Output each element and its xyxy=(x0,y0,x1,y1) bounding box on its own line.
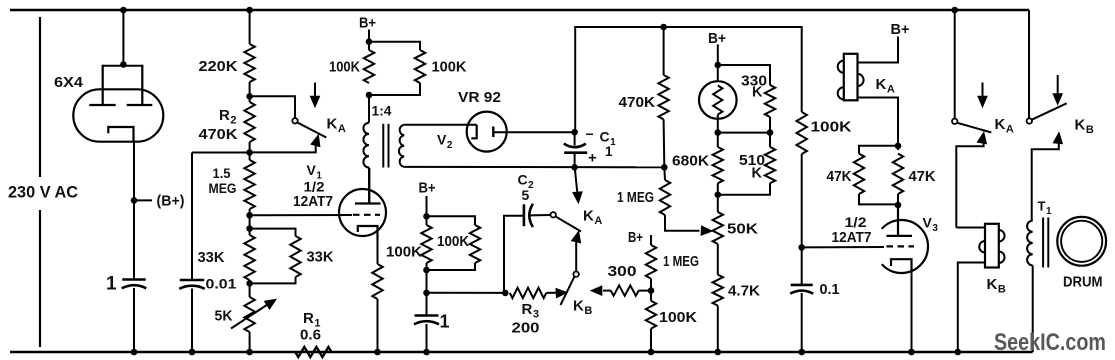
contact KB2 blade xyxy=(1032,103,1067,120)
svg-text:5: 5 xyxy=(522,187,530,203)
wire 47K right bottom xyxy=(897,194,899,236)
V2 cathode bracket xyxy=(471,125,476,139)
contact KB1 pivot xyxy=(573,272,578,277)
label 0.6 xyxy=(300,328,321,344)
resistor 100K pair2 right xyxy=(470,225,480,263)
wire bus to 220K xyxy=(249,10,251,44)
wire B+ stub 3 xyxy=(650,235,652,245)
drum outer circle xyxy=(1057,217,1106,266)
wire 4.7K to bus xyxy=(717,306,719,352)
resistor 1.5 MEG xyxy=(244,160,254,209)
svg-text:B+: B+ xyxy=(891,22,910,38)
svg-text:100K: 100K xyxy=(329,59,360,76)
junction top bus / KA contact xyxy=(951,7,958,14)
svg-text:12AT7: 12AT7 xyxy=(832,230,872,246)
6X4 right plate xyxy=(127,65,153,105)
contact KA2 blade xyxy=(555,216,581,231)
junction R3 / C2 / 100K node xyxy=(502,290,509,297)
label 4.7K xyxy=(728,283,760,300)
6X4 left plate xyxy=(89,65,115,105)
label KA2 xyxy=(583,208,602,228)
label V1 xyxy=(307,162,323,182)
resistor 680K xyxy=(713,147,723,183)
junction B+ line / 470K xyxy=(660,24,667,31)
label R2 xyxy=(219,107,236,127)
diode V2 VR92 envelope xyxy=(467,112,507,152)
label C1 value 1 xyxy=(605,144,613,159)
junction bypass cap / bus xyxy=(423,349,430,356)
resistor R2 470K xyxy=(244,102,254,142)
contact KA1 actuate arrow xyxy=(310,83,320,108)
wire primary to V1 plate xyxy=(368,168,370,204)
wire 1MEG to 50K wiper xyxy=(665,215,700,231)
label KB1 xyxy=(573,298,592,318)
svg-text:B+: B+ xyxy=(628,230,643,246)
label 100K V1 cathode xyxy=(386,244,422,261)
junction C1 / output line xyxy=(571,164,578,171)
svg-text:−: − xyxy=(586,126,594,142)
wire 6X4 cathode to B+ node xyxy=(133,141,135,280)
photocell element xyxy=(713,86,722,115)
svg-text:47K: 47K xyxy=(909,169,937,185)
label V3 xyxy=(923,215,939,235)
wire 100K pair link xyxy=(369,42,420,50)
junction top bus / 6X4 xyxy=(120,7,127,14)
capacitor 1 (filter) plates xyxy=(122,280,147,289)
wire photocell bottom xyxy=(717,115,719,148)
wire B+ distribution line xyxy=(575,27,802,132)
wire 220K-R2 xyxy=(249,82,251,102)
wire top bus xyxy=(10,9,1029,11)
junction 0.1 / bus xyxy=(798,349,805,356)
svg-text:1.5: 1.5 xyxy=(213,165,231,181)
label 680K xyxy=(672,153,709,170)
svg-text:100K: 100K xyxy=(659,309,697,326)
svg-text:K: K xyxy=(752,85,763,101)
svg-text:680K: 680K xyxy=(672,153,709,170)
V1 grid (dashed) xyxy=(353,214,380,216)
label 1:4 xyxy=(372,103,393,118)
label 220K xyxy=(199,58,238,75)
resistor 47K right xyxy=(893,154,903,194)
label 100K grid xyxy=(811,119,852,136)
label 100K plate load right xyxy=(432,59,467,76)
svg-text:B+: B+ xyxy=(359,15,376,32)
junction filter cap / bus xyxy=(131,349,138,356)
label 6X4 xyxy=(54,74,84,91)
label 1 bypass cap xyxy=(440,312,450,332)
wire C2 branch xyxy=(504,216,523,293)
contact KA3 blade xyxy=(957,123,991,133)
svg-text:0.01: 0.01 xyxy=(206,276,237,292)
wire V1 cathode lead xyxy=(377,238,379,264)
svg-text:1: 1 xyxy=(440,312,450,332)
label B+ clamp xyxy=(628,230,643,246)
transformer primary winding xyxy=(363,123,369,168)
wire 5K to bus xyxy=(249,332,251,352)
label V3 12AT7 xyxy=(832,230,872,246)
svg-text:SeekIC.com: SeekIC.com xyxy=(994,329,1106,356)
50K wiper arrow xyxy=(701,226,713,236)
wire (B+) tick xyxy=(134,199,152,201)
svg-text:100K: 100K xyxy=(437,233,469,250)
resistor 510K xyxy=(765,147,775,183)
relay coil KB right bump 1 xyxy=(999,230,1005,242)
svg-text:200: 200 xyxy=(512,321,540,337)
wire KB contact feed xyxy=(1028,10,1030,118)
svg-text:0.1: 0.1 xyxy=(820,282,840,298)
capacitor 0.01 plates xyxy=(179,280,205,289)
wire KA contact feed xyxy=(954,10,956,119)
junction 100K pair2 top xyxy=(423,213,430,220)
R3 wiper arrow xyxy=(546,288,567,298)
svg-text:12AT7: 12AT7 xyxy=(293,194,333,210)
wire 33K-5K xyxy=(249,280,251,297)
wire 470K bottom xyxy=(663,119,666,167)
junction 4.7K / bus xyxy=(715,349,722,356)
wire 100K pair2 bottom xyxy=(427,263,476,270)
relay coil KA body xyxy=(844,54,858,101)
svg-text:K: K xyxy=(752,166,763,182)
wire T1 to bus xyxy=(1032,265,1034,352)
wire 47K left link xyxy=(859,146,898,154)
watermark SeekIC.com xyxy=(994,329,1106,356)
relay coil KB left bump xyxy=(979,241,985,253)
resistor R1 0.6 (in bus) xyxy=(295,347,331,357)
label 510 xyxy=(739,153,765,169)
wire KB coil to bus xyxy=(958,263,985,353)
wire 100K pair bottom xyxy=(369,83,420,95)
wire V2 plate lead xyxy=(493,131,574,133)
capacitor 0.1 plates xyxy=(790,285,813,294)
label R3 xyxy=(522,301,539,321)
svg-text:1/2: 1/2 xyxy=(845,214,867,230)
relay coil KB right bump 2 xyxy=(999,252,1005,264)
label 100K pair2 right xyxy=(437,233,469,250)
junction 470K/1MEG node xyxy=(661,164,668,171)
6X4 cathode xyxy=(108,127,133,142)
junction 6X4 plates xyxy=(120,61,127,68)
svg-text:220K: 220K xyxy=(199,58,238,75)
svg-text:100K: 100K xyxy=(811,119,852,136)
capacitor C1 curved plate xyxy=(564,144,586,148)
label KA3 xyxy=(995,116,1014,136)
wire B+ stub 2 xyxy=(426,196,428,225)
V1 plate xyxy=(355,168,381,204)
label 470K xyxy=(619,94,656,111)
transformer core xyxy=(383,124,388,168)
label V1 1/2 xyxy=(304,179,325,195)
junction V3 grid tap xyxy=(798,244,805,251)
V3 plate xyxy=(887,205,913,236)
capacitor C1 flat plate xyxy=(564,151,587,154)
label V1 12AT7 xyxy=(293,194,333,210)
junction 220K/R2/KA xyxy=(246,93,253,100)
resistor R3 200 xyxy=(510,288,547,298)
resistor 100K V1 cathode xyxy=(372,264,382,299)
junction 330K/510K xyxy=(767,129,774,136)
svg-text:(B+): (B+) xyxy=(157,194,185,210)
resistor 100K pair2 left xyxy=(421,225,431,263)
contact KB2 pivot xyxy=(1027,118,1032,123)
resistor 220K xyxy=(244,44,254,82)
junction R2/1.5MEG node xyxy=(246,149,253,156)
wire 33K pair top link xyxy=(250,229,296,236)
junction 33K pair bottom xyxy=(246,280,253,287)
resistor 100K bias xyxy=(646,301,656,329)
wire 100K pair2 link xyxy=(427,216,476,225)
wire cathode resistor to bus xyxy=(377,299,379,352)
relay coil KB body xyxy=(985,224,999,268)
junction (B+) node xyxy=(131,197,138,204)
node 230V AC input lower lead xyxy=(39,210,41,347)
wire 330K bottom xyxy=(769,117,771,147)
svg-text:50K: 50K xyxy=(727,221,758,238)
label VR 92 xyxy=(458,90,501,106)
junction KB coil / bus xyxy=(955,349,962,356)
svg-text:4.7K: 4.7K xyxy=(728,283,760,300)
V3 grid (dashed) xyxy=(887,245,915,247)
capacitor C2 curved plate xyxy=(529,204,533,227)
label B+ transformer xyxy=(359,15,376,32)
contact KB2 actuate arrow xyxy=(1053,75,1063,105)
svg-text:1: 1 xyxy=(106,274,117,295)
svg-text:470K: 470K xyxy=(619,94,656,111)
resistor 100K grid xyxy=(797,112,807,154)
label B+ mixer xyxy=(419,180,436,197)
label 330 K xyxy=(752,85,763,101)
potentiometer 50K xyxy=(713,212,723,244)
label 1.5 xyxy=(213,165,231,181)
label 50K xyxy=(727,221,758,238)
label 47K left xyxy=(827,169,852,185)
label 200 xyxy=(512,321,540,337)
label KA1 xyxy=(327,116,346,136)
V3 cathode xyxy=(891,259,912,273)
junction R3 tap xyxy=(423,290,430,297)
junction 680K/50K node xyxy=(715,191,722,198)
svg-text:+: + xyxy=(588,150,597,167)
resistor 1MEG vertical xyxy=(646,245,656,279)
wire filter cap to bus xyxy=(133,288,135,352)
node 230V AC input upper lead xyxy=(39,17,41,177)
label 470K xyxy=(199,126,238,143)
label KA relay xyxy=(876,76,895,96)
junction V1 cathode / bus xyxy=(374,349,381,356)
resistor 33K right xyxy=(290,236,300,277)
svg-text:1:4: 1:4 xyxy=(372,103,393,118)
wire 0.01 to bus xyxy=(191,289,193,353)
contact KA2 pivot xyxy=(551,212,556,217)
label 5K xyxy=(215,309,234,325)
potentiometer 5K xyxy=(244,297,254,332)
wire KA3 to KB coil xyxy=(956,227,985,229)
transformer T1 winding xyxy=(1027,221,1033,266)
svg-text:1/2: 1/2 xyxy=(304,179,325,195)
junction photocell/680K xyxy=(715,129,722,136)
label 100K plate load left xyxy=(329,59,360,76)
junction 100K pair bottom xyxy=(366,92,373,99)
svg-text:100K: 100K xyxy=(386,244,422,261)
contact KA1 wiper arrow xyxy=(250,135,321,153)
capacitor 1 (cathode bypass) xyxy=(414,316,439,325)
relay coil KA left bump 1 xyxy=(838,61,844,73)
resistor 1MEG xyxy=(660,180,670,215)
capacitor C2 flat plate xyxy=(523,204,526,226)
contact KA1 pivot xyxy=(292,118,297,123)
svg-text:300: 300 xyxy=(608,264,637,280)
contact KB2 wiper arrow xyxy=(1032,132,1063,221)
label 0.1 xyxy=(820,282,840,298)
wire 510K bottom link xyxy=(718,183,770,195)
label 47K right xyxy=(909,169,937,185)
label 1 filter cap xyxy=(106,274,117,295)
contact KA3 wiper arrow xyxy=(956,132,986,228)
label MEG xyxy=(209,181,237,196)
label V2 xyxy=(437,132,453,152)
resistor 33K left xyxy=(244,235,254,280)
300 contact arrow xyxy=(591,286,611,296)
junction 47K pair bottom xyxy=(895,202,902,209)
transformer secondary winding xyxy=(399,125,404,167)
contact KA3 pivot xyxy=(952,119,957,124)
resistor 4.7K xyxy=(713,275,723,306)
junction 33K pair top xyxy=(246,225,253,232)
wire 220K tap to KA1 xyxy=(250,96,295,118)
wire secondary top lead xyxy=(404,124,477,126)
wire B+ stub photocell xyxy=(717,44,719,81)
resistor 100K right (parallel) xyxy=(415,50,425,83)
label T1 xyxy=(1038,199,1052,218)
svg-text:VR 92: VR 92 xyxy=(458,90,501,106)
svg-text:5K: 5K xyxy=(215,309,234,325)
wire 1MEG to 300 node xyxy=(650,279,652,301)
relay coil KA right bump xyxy=(858,74,864,86)
resistor 470K xyxy=(658,75,668,119)
triode V3 envelope xyxy=(882,220,928,273)
svg-text:1 MEG: 1 MEG xyxy=(617,190,654,206)
wire B+ to KA coil xyxy=(858,37,899,63)
contact KA2 wiper arrow xyxy=(571,231,581,272)
label 300 xyxy=(608,264,637,280)
svg-text:0.6: 0.6 xyxy=(300,328,321,344)
wire 0.01 branch vertical xyxy=(191,153,193,281)
label 33K left xyxy=(198,249,225,266)
resistor 47K left xyxy=(854,154,864,194)
photocell envelope xyxy=(699,81,737,119)
resistor 300 xyxy=(611,285,639,295)
contact KA1 blade xyxy=(297,122,327,137)
label 0.01 xyxy=(206,276,237,292)
junction 5K / bus xyxy=(246,349,253,356)
wire 47K left bottom xyxy=(859,194,898,204)
wire 1MEG top xyxy=(663,167,666,180)
label KB2 xyxy=(1075,117,1094,137)
label 510 K xyxy=(752,166,763,182)
wire 50K to 4.7K xyxy=(717,244,719,275)
label DRUM xyxy=(1063,275,1103,291)
svg-text:MEG: MEG xyxy=(209,181,237,196)
label 100K bias xyxy=(659,309,697,326)
wire 6X4 plate feed xyxy=(122,10,124,66)
junction 47K pair top xyxy=(895,143,902,150)
wire R2-1.5MEG xyxy=(249,142,251,160)
wire 330K-510K link xyxy=(718,132,770,134)
label 1MEG xyxy=(617,190,654,206)
wire V3 cathode to bus xyxy=(911,271,913,352)
junction 100K pair top xyxy=(366,38,373,45)
wire C1 top lead xyxy=(574,132,576,145)
label C2 value 5 xyxy=(522,187,530,203)
resistor 100K left (plate load) xyxy=(364,50,374,83)
svg-text:1: 1 xyxy=(605,144,613,159)
label 330 xyxy=(741,74,767,90)
label R1 xyxy=(303,310,320,330)
label C1 plus xyxy=(588,150,597,167)
junction photocell top xyxy=(715,62,722,69)
wire pair to primary xyxy=(368,95,370,123)
label 230 V AC xyxy=(8,183,78,202)
svg-text:100K: 100K xyxy=(432,59,467,76)
relay coil KA left bump 2 xyxy=(838,87,844,99)
wire C1 bottom lead xyxy=(574,153,576,168)
wire 470K top xyxy=(663,27,665,75)
wire 300 to node xyxy=(639,290,651,292)
label V3 1/2 xyxy=(845,214,867,230)
rectifier tube 6X4 envelope xyxy=(73,89,163,141)
contact KA2 feed arrow xyxy=(573,168,583,204)
label C1 minus xyxy=(586,126,594,142)
6X4 plate link bar xyxy=(103,65,143,67)
wire 100K grid down xyxy=(801,154,803,285)
wire V3 grid lead xyxy=(802,246,884,248)
wire 0.1 to bus xyxy=(801,293,803,352)
contact KA3 actuate arrow xyxy=(978,83,988,108)
label B+ photocell xyxy=(708,30,726,47)
resistor 330K xyxy=(765,85,775,117)
wire 0.01 branch top xyxy=(192,152,250,154)
label (B+) xyxy=(157,194,185,210)
svg-text:1 MEG: 1 MEG xyxy=(663,254,699,270)
junction 100K pair2 bottom xyxy=(423,267,430,274)
drum inner circle xyxy=(1061,221,1102,262)
junction V3 cathode / bus xyxy=(908,349,915,356)
label B+ relay xyxy=(891,22,910,38)
wire bottom bus xyxy=(10,351,1033,354)
wire C2 to KA2 pivot xyxy=(530,214,551,216)
wire 100K bias to bus xyxy=(650,329,652,352)
V2 plate bar xyxy=(492,127,494,138)
svg-text:33K: 33K xyxy=(307,249,334,266)
svg-text:6X4: 6X4 xyxy=(54,74,84,91)
wire pair2 down xyxy=(426,263,428,316)
label C1 xyxy=(600,129,617,149)
junction 0.01 / bus xyxy=(189,349,196,356)
svg-text:230 V AC: 230 V AC xyxy=(8,183,78,202)
V1 cathode xyxy=(358,226,378,240)
label 1 MEG clamp xyxy=(663,254,699,270)
junction grid tap xyxy=(246,212,253,219)
label C2 xyxy=(518,172,535,192)
svg-text:33K: 33K xyxy=(198,249,225,266)
junction 300/100K node xyxy=(648,287,655,294)
svg-text:B+: B+ xyxy=(419,180,436,197)
wire 330K top link xyxy=(718,65,770,85)
wire secondary bottom lead xyxy=(404,166,664,168)
label 33K right xyxy=(307,249,334,266)
transformer T1 core xyxy=(1043,218,1048,268)
svg-text:47K: 47K xyxy=(827,169,852,185)
